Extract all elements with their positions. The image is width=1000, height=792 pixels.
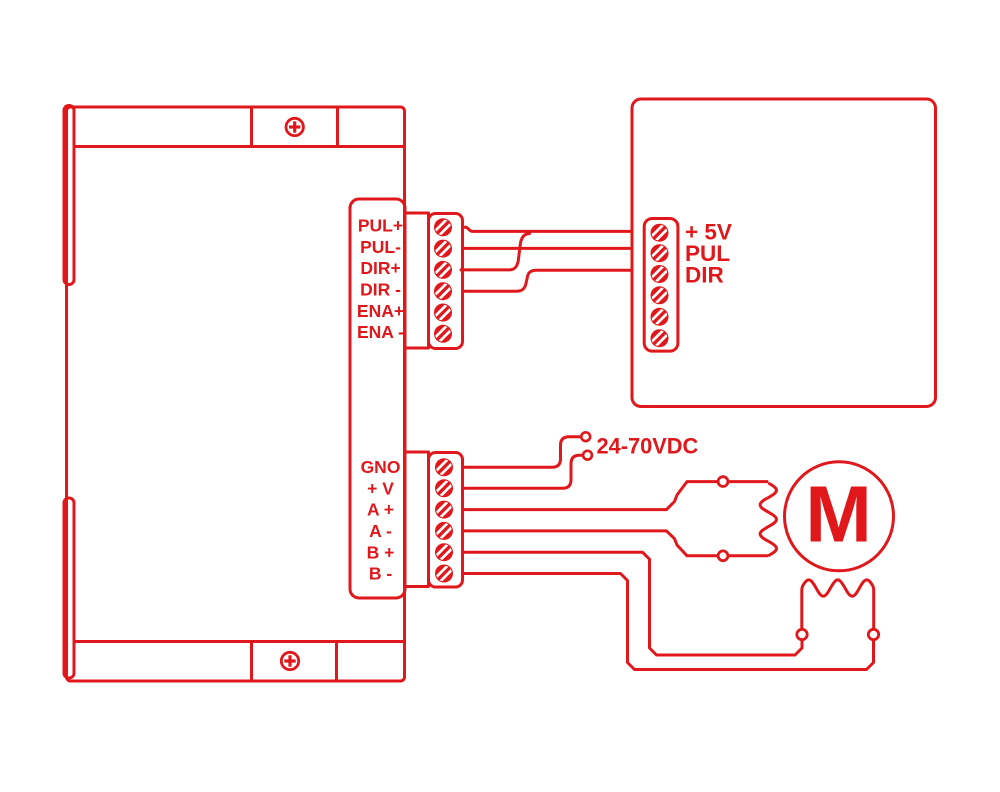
svg-text:DIR -: DIR - <box>360 280 401 300</box>
svg-text:B +: B + <box>367 542 395 562</box>
phillips screw top <box>286 118 303 135</box>
phase A pin top <box>718 477 728 487</box>
screw GNO <box>435 458 453 476</box>
screw A+ <box>435 501 453 519</box>
screw ctrl 2 <box>651 244 669 262</box>
terminal label box <box>350 199 405 598</box>
top bar vertical divider 2 <box>336 107 339 147</box>
DIN clip lower <box>64 498 74 678</box>
svg-text:GNO: GNO <box>361 457 401 477</box>
svg-text:A -: A - <box>369 521 392 541</box>
controller terminal strip <box>644 219 678 352</box>
wire B+ to phase B left pin <box>461 552 802 655</box>
screw B- <box>435 565 453 583</box>
power terminal minus <box>583 451 592 460</box>
wire A+ to phase A top <box>461 482 768 510</box>
wire DIR- to DIR <box>461 270 632 291</box>
driver module outline <box>67 107 405 681</box>
top bar divider <box>74 145 405 148</box>
screw ENA+ <box>434 304 452 322</box>
svg-text:A +: A + <box>367 500 394 520</box>
bottom bar divider <box>74 640 405 643</box>
screw A- <box>435 522 453 540</box>
screw DIR- <box>434 282 452 300</box>
phase A winding coil <box>760 483 776 556</box>
svg-text:24-70VDC: 24-70VDC <box>597 434 699 459</box>
phillips screw bottom <box>281 652 298 669</box>
bottom terminal housing <box>405 452 429 587</box>
wire PUL- to PUL <box>461 247 632 250</box>
screw ctrl 1 <box>651 224 669 242</box>
top bar vertical divider 1 <box>250 107 253 147</box>
top terminal housing <box>405 213 429 348</box>
svg-text:B -: B - <box>369 564 393 584</box>
svg-text:PUL+: PUL+ <box>358 216 403 236</box>
wire B- to phase B right pin <box>461 574 874 670</box>
screw ctrl 3 <box>651 265 669 283</box>
phase A pin bottom <box>718 551 728 561</box>
svg-text:ENA -: ENA - <box>357 322 404 342</box>
top terminal screw block <box>429 214 463 349</box>
svg-text:ENA+: ENA+ <box>357 301 404 321</box>
wire A- to phase A bottom <box>461 531 768 556</box>
screw PUL- <box>434 240 452 258</box>
wire DIR+ join to +5V line <box>461 234 530 270</box>
wire PUL+ to +5V <box>461 227 632 231</box>
wire +V to power minus <box>461 455 583 488</box>
motor circle M1 <box>785 462 894 571</box>
phase B winding <box>802 580 874 629</box>
bottom bar vertical divider 1 <box>250 642 253 682</box>
svg-text:DIR+: DIR+ <box>360 258 400 278</box>
DIN clip upper <box>64 106 74 285</box>
screw PUL+ <box>434 218 452 236</box>
screw +V <box>435 479 453 497</box>
bottom terminal screw block <box>429 453 463 588</box>
screw ctrl 6 <box>651 329 669 347</box>
screw B+ <box>435 543 453 561</box>
svg-text:PUL-: PUL- <box>360 237 401 257</box>
controller box <box>632 99 936 407</box>
phase B pin right <box>868 629 878 639</box>
svg-text:+ V: + V <box>367 478 394 498</box>
phase B pin left <box>797 629 807 639</box>
bottom bar vertical divider 2 <box>335 642 338 682</box>
screw ctrl 5 <box>651 308 669 326</box>
screws: top terminal block <box>434 218 669 582</box>
screw ENA- <box>434 325 452 343</box>
screw ctrl 4 <box>651 286 669 304</box>
power terminal plus <box>581 432 590 441</box>
screw DIR+ <box>434 261 452 279</box>
svg-text:M: M <box>805 470 872 559</box>
svg-text:DIR: DIR <box>685 263 724 288</box>
wire GNO to power plus <box>461 437 581 468</box>
